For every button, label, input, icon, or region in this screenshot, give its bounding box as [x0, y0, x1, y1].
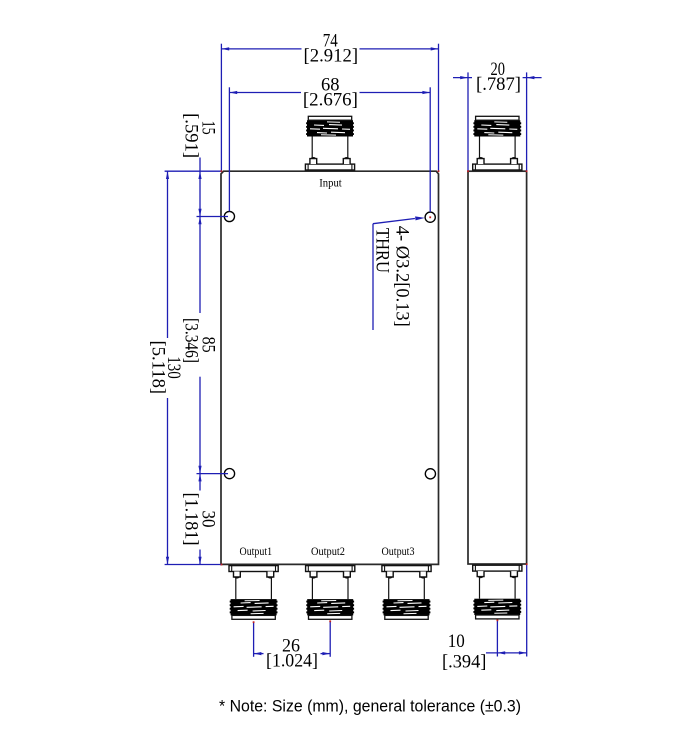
svg-text:[.394]: [.394]	[442, 652, 486, 673]
arrowheads	[166, 47, 535, 655]
mounting hole top-left	[224, 211, 234, 221]
output1 connector	[229, 566, 278, 620]
dim 15/85/30 chain line	[199, 158, 201, 217]
svg-text:[2.912]: [2.912]	[304, 46, 359, 67]
input connector (top center)	[305, 116, 354, 170]
leader line for thru holes	[373, 219, 415, 224]
dim 10 line	[486, 652, 527, 654]
svg-text:[1.181]: [1.181]	[180, 493, 201, 546]
dim 20 extension lines	[467, 72, 469, 170]
dim 10 right extension line	[526, 564, 528, 656]
arrow 130 top	[166, 171, 169, 179]
arrow 30 bottom	[198, 557, 201, 565]
side bottom connector	[473, 565, 522, 619]
arrow 85 bottom	[198, 466, 201, 474]
arrow 10 left	[497, 651, 505, 654]
dim 20 line + tails	[453, 77, 472, 79]
left extension line at bottom hole	[197, 473, 229, 475]
dim 74 extension lines	[220, 44, 222, 171]
svg-text:Output3: Output3	[382, 546, 415, 558]
arrow 74 right	[431, 47, 439, 50]
dim 10 center extension line	[496, 620, 498, 657]
left extension line at body top	[165, 170, 221, 172]
arrow 20 left	[460, 76, 468, 79]
arrow 85 top	[198, 217, 201, 225]
svg-text:[.591]: [.591]	[180, 113, 201, 158]
mounting hole bottom-left	[224, 469, 234, 479]
body outline front view (chamfered top corners)	[221, 171, 439, 564]
arrow 20 right	[527, 76, 535, 79]
svg-text:4- Ø3.2[0.13]: 4- Ø3.2[0.13]	[392, 226, 413, 327]
arrow 26 right	[322, 652, 330, 655]
svg-text:THRU: THRU	[371, 228, 392, 273]
dim 68 extension lines	[228, 87, 230, 211]
svg-text:Output1: Output1	[240, 546, 273, 558]
arrow 15 bottom	[198, 209, 201, 217]
red defpoints	[221, 170, 528, 623]
left extension line at top hole	[197, 216, 229, 218]
svg-text:Input: Input	[319, 178, 342, 190]
dim 74 line	[221, 48, 301, 50]
mounting hole top-right	[425, 212, 435, 222]
left extension line at body bottom	[165, 564, 221, 566]
mounting hole bottom-right	[425, 469, 435, 479]
arrow 68 left	[229, 91, 237, 94]
svg-text:[.787]: [.787]	[476, 74, 521, 95]
svg-text:10: 10	[448, 631, 465, 652]
svg-text:[5.118]: [5.118]	[147, 341, 168, 395]
arrow 74 left	[221, 47, 229, 50]
arrow 15 top	[198, 171, 201, 179]
svg-text:Output2: Output2	[311, 546, 345, 558]
output3 connector	[382, 566, 431, 620]
arrow 68 right	[422, 91, 430, 94]
body outline side view	[468, 171, 527, 564]
dim 130 line	[167, 171, 169, 338]
svg-text:* Note: Size (mm), general tol: * Note: Size (mm), general tolerance (±0…	[219, 697, 521, 716]
arrow 30 top	[198, 474, 201, 482]
dim 26 line stubs	[254, 653, 264, 655]
arrow 10 right	[519, 651, 527, 654]
svg-text:[1.024]: [1.024]	[266, 651, 318, 672]
dim 26 center extension lines	[253, 622, 255, 657]
arrow 26 left	[254, 652, 262, 655]
svg-text:[2.676]: [2.676]	[303, 89, 358, 110]
output2 connector	[306, 566, 355, 620]
dim 68 line	[229, 92, 301, 94]
side top connector	[473, 116, 522, 170]
arrow leader	[415, 216, 425, 220]
arrow 130 bottom	[166, 557, 169, 565]
